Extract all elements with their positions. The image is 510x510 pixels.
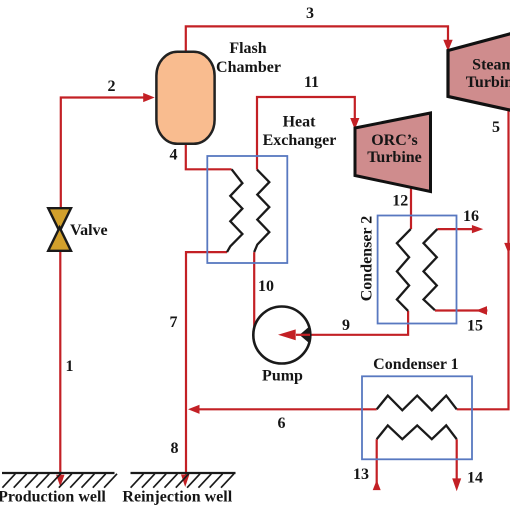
svg-text:Steam: Steam bbox=[472, 56, 510, 73]
svg-text:Pump: Pump bbox=[262, 368, 303, 385]
svg-text:14: 14 bbox=[467, 470, 483, 487]
reinjection well ground line bbox=[131, 472, 236, 474]
pump inlet wedge bbox=[300, 326, 311, 344]
svg-text:15: 15 bbox=[467, 318, 483, 335]
wire stream 11 : heat exchanger vapour out to ORC turbine bbox=[257, 97, 355, 170]
pump inlet line bbox=[296, 334, 310, 336]
wire stream 9 : condenser 2 outlet to pump bbox=[296, 311, 408, 335]
condenser 1 cooling coil bbox=[377, 425, 457, 439]
pump P1 circle bbox=[253, 307, 310, 364]
wire stream 3 : flash chamber top to steam turbine bbox=[186, 26, 448, 51]
valve V1 bbox=[48, 208, 71, 231]
svg-text:Heat: Heat bbox=[283, 114, 317, 131]
arrowhead stream 3 (down into steam turbine) bbox=[443, 40, 452, 52]
svg-text:1: 1 bbox=[66, 358, 74, 375]
svg-text:16: 16 bbox=[463, 208, 479, 225]
flash chamber bbox=[156, 52, 214, 144]
wire stream 12 : ORC turbine exhaust to condenser 2 bbox=[410, 188, 412, 230]
svg-text:Turbine: Turbine bbox=[466, 74, 510, 91]
svg-text:Turbine: Turbine bbox=[367, 149, 422, 166]
svg-text:5: 5 bbox=[492, 119, 500, 136]
arrowhead stream 15 (pointing left) bbox=[476, 306, 487, 315]
condenser 1 box bbox=[362, 376, 472, 459]
svg-text:2: 2 bbox=[108, 78, 116, 95]
steam turbine U-ST bbox=[448, 29, 510, 114]
arrowhead inside pump (pointing left) bbox=[278, 329, 296, 340]
svg-text:7: 7 bbox=[170, 314, 178, 331]
arrowhead stream 5 (down, mid-line, clipped at edge) bbox=[504, 243, 510, 254]
svg-text:4: 4 bbox=[170, 147, 178, 164]
heat exchanger hot side coil bbox=[227, 169, 242, 252]
arrowhead stream 6 (left into riser) bbox=[188, 405, 200, 414]
arrowhead stream 14 (pointing down) bbox=[452, 478, 461, 491]
arrowhead stream 8 (down into ground) bbox=[181, 475, 189, 488]
svg-text:12: 12 bbox=[392, 192, 408, 209]
wire stream 15 : condenser 2 cooling in bbox=[435, 309, 488, 311]
condenser 2 box bbox=[378, 216, 457, 324]
arrowhead stream 1 (down into ground) bbox=[56, 475, 64, 487]
wire stream 10 : pump discharge up to heat exchanger bbox=[253, 252, 255, 327]
svg-text:3: 3 bbox=[306, 5, 314, 22]
svg-text:Production well: Production well bbox=[0, 489, 106, 506]
production well ground line bbox=[2, 472, 115, 474]
wire stream 14 : condenser 1 cooling out bbox=[456, 439, 458, 480]
condenser 1 steam coil bbox=[377, 396, 457, 411]
wire stream 2 : valve to flash chamber bbox=[61, 98, 145, 210]
arrowhead stream 13 (pointing up) bbox=[373, 480, 381, 490]
svg-text:Condenser 2: Condenser 2 bbox=[358, 216, 375, 302]
wire stream 7/8 : heat exchanger hot outlet down to reinjection well bbox=[186, 252, 227, 478]
svg-text:Chamber: Chamber bbox=[216, 59, 281, 76]
svg-text:8: 8 bbox=[171, 440, 179, 457]
wire stream 6 : condenser 1 outlet to reinjection riser bbox=[198, 408, 377, 410]
svg-text:Condenser 1: Condenser 1 bbox=[373, 356, 459, 373]
reinjection well hatching bbox=[131, 474, 234, 488]
arrowhead stream 16 (pointing right) bbox=[472, 225, 483, 233]
arrowhead stream 9 (left into pump) bbox=[278, 329, 296, 340]
wire stream 4 : flash chamber bottom to heat exchanger hot inlet bbox=[186, 145, 232, 170]
svg-text:ORC’s: ORC’s bbox=[371, 132, 418, 149]
svg-text:Flash: Flash bbox=[229, 40, 266, 57]
condenser 2 cooling coil bbox=[424, 229, 438, 310]
arrowhead stream 11 (down into ORC turbine) bbox=[350, 118, 359, 130]
ORC turbine U-OT bbox=[355, 113, 431, 192]
svg-text:13: 13 bbox=[353, 466, 369, 483]
svg-text:Exchanger: Exchanger bbox=[263, 132, 337, 149]
svg-text:6: 6 bbox=[278, 415, 286, 432]
arrowhead stream 2 (right into flash chamber) bbox=[143, 93, 155, 102]
svg-text:Reinjection well: Reinjection well bbox=[122, 489, 232, 506]
wire stream 13 : condenser 1 cooling in bbox=[376, 439, 378, 490]
condenser 2 process coil bbox=[397, 229, 411, 311]
heat exchanger box bbox=[207, 156, 287, 263]
heat exchanger cold side coil bbox=[254, 170, 269, 253]
svg-text:Valve: Valve bbox=[70, 222, 108, 239]
svg-text:9: 9 bbox=[342, 317, 350, 334]
svg-text:10: 10 bbox=[258, 278, 274, 295]
production well hatching bbox=[2, 474, 117, 488]
wire stream 5 : steam turbine exhaust down to condenser 1 bbox=[457, 108, 509, 409]
wire stream 16 : condenser 2 cooling out bbox=[437, 228, 473, 230]
svg-text:11: 11 bbox=[304, 74, 319, 91]
wire stream 1 : production well riser bbox=[59, 250, 61, 479]
